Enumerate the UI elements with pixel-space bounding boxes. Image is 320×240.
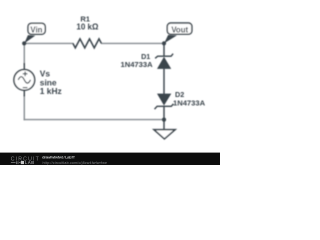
wire Vout node down to D1 cathode bbox=[163, 43, 165, 56]
flag Vout bbox=[164, 23, 192, 44]
svg-text:LAB: LAB bbox=[25, 160, 35, 165]
node Vin bbox=[22, 41, 26, 45]
node Vout bbox=[162, 41, 166, 45]
junction dot at ground node bbox=[162, 118, 166, 122]
wire resistor R1 right lead to Vout node bbox=[101, 42, 164, 44]
svg-text:Vout: Vout bbox=[171, 25, 188, 34]
svg-text:10 kΩ: 10 kΩ bbox=[76, 23, 99, 32]
wire D1 anode to D2 anode bbox=[163, 68, 165, 94]
wire Vin node to resistor R1 left lead bbox=[24, 42, 73, 44]
svg-text:Vin: Vin bbox=[30, 25, 42, 34]
footer logo LAB with capacitor glyph bbox=[11, 161, 21, 164]
svg-text:http://circuitlab.com/c/j8cw4f: http://circuitlab.com/c/j8cw4fwfwrfwe bbox=[43, 161, 108, 165]
wire Vin node down to Vs top terminal bbox=[23, 43, 25, 65]
voltage source Vs bbox=[14, 63, 35, 97]
wire Vs bottom terminal down to bottom-left corner bbox=[23, 95, 25, 120]
wire D2 cathode down to ground bbox=[163, 106, 165, 130]
svg-text:1N4733A: 1N4733A bbox=[173, 99, 206, 108]
zener diode D2 bbox=[155, 94, 174, 110]
svg-text:1N4733A: 1N4733A bbox=[121, 60, 154, 69]
wire bottom horizontal to ground junction bbox=[24, 119, 164, 121]
zener diode D1 bbox=[155, 54, 173, 69]
flag Vin bbox=[24, 23, 45, 43]
resistor R1 bbox=[73, 39, 102, 48]
footer bar bbox=[0, 153, 222, 167]
svg-text:1 kHz: 1 kHz bbox=[40, 86, 62, 96]
svg-text:drawfwfwfwt / Lab7f: drawfwfwfwt / Lab7f bbox=[42, 155, 75, 160]
ground bbox=[154, 130, 175, 139]
